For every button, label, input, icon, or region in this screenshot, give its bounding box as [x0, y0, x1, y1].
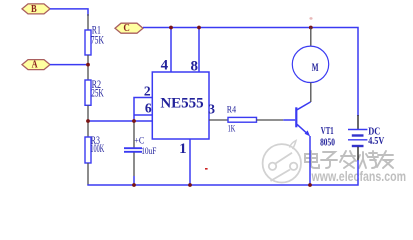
resistor R2	[85, 65, 104, 121]
pin 8 wire	[198, 28, 200, 73]
svg-text:4: 4	[161, 57, 169, 73]
pin 3 wire	[209, 119, 228, 121]
svg-text:10uF: 10uF	[141, 147, 156, 157]
svg-text:A: A	[32, 59, 38, 71]
label B	[22, 3, 50, 15]
artifact smudge	[309, 17, 312, 20]
svg-text:25K: 25K	[91, 85, 104, 99]
motor M	[292, 28, 328, 103]
label C	[115, 22, 143, 34]
junction pin4/top rail	[169, 26, 173, 30]
junction node R2/R3	[86, 119, 90, 123]
svg-text:100K: 100K	[90, 141, 104, 155]
junction node cap/pins	[132, 119, 136, 123]
wire top rail	[143, 28, 358, 117]
junction pin8/top rail	[197, 26, 201, 30]
resistor R4	[227, 105, 257, 134]
svg-text:M: M	[312, 60, 319, 74]
svg-text:VT1: VT1	[321, 126, 334, 137]
pin 4 wire	[170, 28, 172, 73]
wire R4 to base	[257, 119, 284, 121]
watermark logo	[263, 141, 301, 183]
svg-text:2: 2	[144, 83, 151, 98]
junction node A	[86, 63, 90, 67]
wire to pin2/pin6	[134, 98, 153, 122]
junction pin1/bottom rail	[188, 183, 192, 187]
watermark red dash	[205, 168, 208, 170]
wire bottom rail	[87, 160, 358, 185]
svg-text:+C: +C	[134, 136, 144, 146]
wire B to R1	[50, 9, 88, 16]
junction cap/bottom rail	[132, 183, 136, 187]
resistor R3	[85, 121, 104, 185]
pin 1 wire	[189, 139, 191, 185]
svg-text:1K: 1K	[228, 124, 236, 134]
resistor R1	[85, 14, 104, 65]
svg-text:1: 1	[179, 141, 187, 157]
transistor Q1 VT1 8050	[296, 102, 335, 148]
junction emitter/bottom rail	[308, 183, 312, 187]
watermark text 电子发烧友	[305, 151, 393, 168]
label A	[22, 59, 50, 71]
svg-text:NE555: NE555	[160, 96, 203, 112]
wire node to pin7	[88, 120, 153, 122]
wire emitter to bottom rail	[309, 136, 311, 185]
svg-text:4.5V: 4.5V	[368, 136, 384, 147]
svg-text:75K: 75K	[91, 32, 104, 46]
capacitor C 10uF	[124, 121, 156, 185]
junction motor/top rail	[309, 26, 313, 30]
op-amp U1 NE555 box	[152, 72, 209, 139]
svg-text:B: B	[31, 3, 37, 15]
svg-text:3: 3	[208, 102, 215, 117]
svg-text:8: 8	[190, 59, 198, 75]
svg-text:R4: R4	[227, 105, 237, 115]
wire A to node	[50, 64, 88, 66]
svg-text:C: C	[123, 22, 130, 34]
wire pin6 stub	[134, 114, 153, 116]
svg-text:8050: 8050	[320, 137, 335, 148]
battery DC 4.5V	[348, 115, 385, 161]
svg-text:6: 6	[145, 100, 152, 115]
